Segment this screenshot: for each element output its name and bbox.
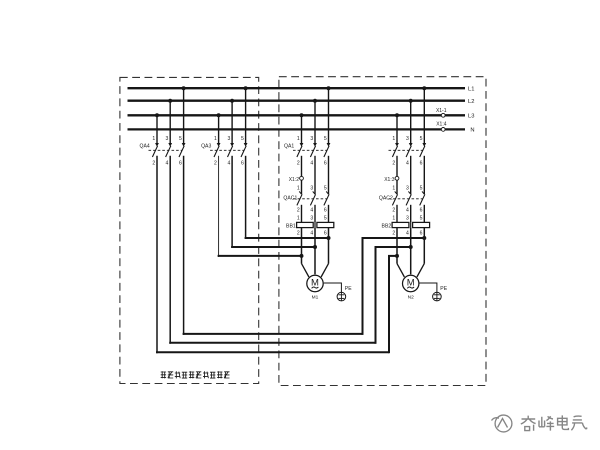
svg-text:QAC2: QAC2 bbox=[379, 195, 393, 201]
PE earth terminal (M1) bbox=[337, 286, 352, 301]
svg-text:N2: N2 bbox=[408, 294, 414, 300]
svg-text:6: 6 bbox=[324, 230, 327, 236]
svg-text:BB2: BB2 bbox=[382, 224, 392, 230]
svg-text:5: 5 bbox=[420, 216, 423, 222]
svg-text:BB1: BB1 bbox=[286, 224, 296, 230]
svg-text:QAC1: QAC1 bbox=[283, 195, 297, 201]
svg-text:2: 2 bbox=[297, 230, 300, 236]
wire: tap from bus L1 to QA1 pin 5, with junction bbox=[327, 86, 331, 143]
svg-text:6: 6 bbox=[420, 230, 423, 236]
svg-text:3: 3 bbox=[406, 136, 409, 142]
svg-text:PE: PE bbox=[345, 286, 352, 292]
wire: tap from bus L1 to QA3 pin 5, with junction bbox=[244, 86, 248, 143]
contactor QAC2 bbox=[379, 186, 425, 214]
svg-text:QA3: QA3 bbox=[201, 143, 211, 149]
QA3 pole contact (pin 1) bbox=[214, 143, 221, 157]
wire BB1 to motor M1 bbox=[302, 228, 329, 277]
svg-text:5: 5 bbox=[324, 136, 327, 142]
svg-text:5: 5 bbox=[420, 136, 423, 142]
motor N2 bbox=[403, 275, 419, 300]
motor M1 bbox=[307, 275, 323, 300]
bus N bbox=[128, 128, 466, 130]
wire QA4 pole2 -> riser -> motor branch 2 pole1 bbox=[156, 156, 397, 353]
QAC1 mechanical linkage (dashed) bbox=[293, 198, 327, 200]
svg-text:2: 2 bbox=[297, 160, 300, 166]
BB1 heater box right bbox=[317, 222, 334, 227]
QA3 pole contact (pin 5) bbox=[241, 143, 248, 157]
PE earth terminal (N2) bbox=[433, 286, 448, 301]
svg-text:QA1: QA1 bbox=[284, 143, 294, 149]
circuit breaker QA3 bbox=[201, 86, 248, 166]
svg-text:3: 3 bbox=[166, 136, 169, 142]
QA4 pole contact (pin 5) bbox=[179, 143, 186, 157]
QAC2 pole contact (pin 5) bbox=[420, 191, 425, 205]
svg-text:2: 2 bbox=[392, 160, 395, 166]
QA1 pole contact (pin 3) bbox=[310, 143, 317, 157]
svg-text:X1:2: X1:2 bbox=[289, 177, 300, 183]
svg-text:1: 1 bbox=[152, 136, 155, 142]
svg-text:6: 6 bbox=[420, 160, 423, 166]
wire: tap from bus L2 to QA2 (unlabeled) pin 3, with junction bbox=[409, 99, 413, 144]
wire QA2 drop pole3 bbox=[410, 156, 412, 194]
QA1 pin numbers 1 3 5 bbox=[297, 136, 327, 142]
svg-text:3: 3 bbox=[227, 136, 230, 142]
QA1 pin numbers 2 4 6 bbox=[297, 160, 327, 166]
QAC2 pole contact (pin 1) bbox=[392, 191, 397, 205]
wire: tap from bus L1 to QA4 pin 5, with junction bbox=[182, 86, 186, 143]
enclosure: right dashed cabinet box bbox=[279, 77, 486, 386]
svg-text:5: 5 bbox=[241, 136, 244, 142]
QA3 pin numbers 1 3 5 bbox=[214, 136, 244, 142]
wire QA4 pole6 -> riser -> motor branch 2 pole5 bbox=[183, 156, 425, 335]
svg-text:4: 4 bbox=[227, 160, 230, 166]
svg-text:2: 2 bbox=[392, 230, 395, 236]
wire QA2 drop pole1 with terminal X1:3 bbox=[396, 156, 398, 177]
QA2 (unlabeled) pin numbers 2 4 6 bbox=[392, 160, 422, 166]
wire QA1 drop pole1 with terminal X1:2 bbox=[301, 156, 303, 177]
QAC1 pole contact (pin 3) bbox=[310, 191, 315, 205]
svg-text:5: 5 bbox=[324, 216, 327, 222]
wire QA4 pole4 -> riser -> motor branch 2 pole3 bbox=[169, 156, 411, 344]
wire: tap from bus L3 to QA4 pin 1, with junction bbox=[155, 113, 159, 143]
thermal overload relay BB1 bbox=[286, 222, 334, 236]
svg-text:1: 1 bbox=[214, 136, 217, 142]
wire QA3 pole2 -> motor branch 1 pole1 bbox=[218, 156, 302, 257]
QAC2 pin numbers 2 4 6 bbox=[392, 207, 422, 213]
BB2 heater box right bbox=[413, 222, 430, 227]
QA2 (unlabeled) pole contact (pin 1) bbox=[392, 143, 399, 157]
QA1 pole contact (pin 1) bbox=[297, 143, 304, 157]
circuit breaker QA4 bbox=[139, 86, 185, 166]
svg-text:M1: M1 bbox=[312, 294, 319, 300]
circuit breaker QA2 (unlabeled) bbox=[389, 86, 427, 166]
QA4 pole contact (pin 3) bbox=[166, 143, 173, 157]
svg-text:N: N bbox=[470, 128, 474, 134]
wire: middle pole through BB1 bbox=[314, 222, 316, 227]
QA4 pin numbers 2 4 6 bbox=[152, 160, 182, 166]
svg-text:4: 4 bbox=[310, 207, 313, 213]
QAC2 pole contact (pin 3) bbox=[406, 191, 411, 205]
QAC2 pin numbers 1 3 5 bbox=[392, 186, 422, 192]
thermal overload relay BB2 bbox=[382, 222, 430, 236]
wire: tap from bus L2 to QA4 pin 3, with junction bbox=[168, 99, 172, 144]
svg-text:2: 2 bbox=[297, 207, 300, 213]
QAC2 mechanical linkage (dashed) bbox=[389, 198, 423, 200]
svg-text:4: 4 bbox=[406, 230, 409, 236]
watermark: text 奇峰电气 bbox=[521, 415, 587, 430]
bus L2 bbox=[128, 100, 466, 102]
wire QA3 pole6 -> motor branch 1 pole5 bbox=[245, 156, 329, 239]
svg-text:5: 5 bbox=[420, 186, 423, 192]
wire: tap from bus L1 to QA2 (unlabeled) pin 5, with junction bbox=[422, 86, 426, 143]
svg-text:1: 1 bbox=[297, 136, 300, 142]
circuit breaker QA1 bbox=[284, 86, 331, 166]
svg-text:L2: L2 bbox=[468, 99, 474, 105]
QA3 mechanical linkage (dashed) bbox=[210, 149, 244, 151]
svg-text:4: 4 bbox=[406, 160, 409, 166]
wire: tap from bus L2 to QA3 pin 3, with junction bbox=[230, 99, 234, 144]
wire motor N2 to PE bbox=[419, 283, 437, 292]
QA1 pole contact (pin 5) bbox=[324, 143, 331, 157]
bus L3 bbox=[128, 114, 466, 116]
svg-text:1: 1 bbox=[297, 216, 300, 222]
wire QAC1 to BB1 poles bbox=[297, 205, 329, 223]
contactor QAC1 bbox=[283, 186, 329, 214]
wire: tap from bus L2 to QA1 pin 3, with junction bbox=[313, 99, 317, 144]
svg-text:2: 2 bbox=[214, 160, 217, 166]
wire QA1 drop pole5 bbox=[328, 156, 330, 194]
svg-text:3: 3 bbox=[406, 216, 409, 222]
enclosure: left dashed cabinet box bbox=[120, 77, 259, 383]
svg-text:PE: PE bbox=[440, 286, 447, 292]
svg-text:6: 6 bbox=[241, 160, 244, 166]
svg-text:4: 4 bbox=[310, 230, 313, 236]
bus L1 bbox=[128, 87, 466, 89]
svg-text:L1: L1 bbox=[468, 87, 474, 93]
QAC1 pole contact (pin 5) bbox=[324, 191, 329, 205]
svg-text:6: 6 bbox=[179, 160, 182, 166]
svg-text:3: 3 bbox=[310, 216, 313, 222]
QA3 pole contact (pin 3) bbox=[228, 143, 235, 157]
QA2 (unlabeled) mechanical linkage (dashed) bbox=[389, 149, 423, 151]
svg-text:M: M bbox=[407, 278, 415, 289]
svg-text:1: 1 bbox=[392, 186, 395, 192]
svg-text:3: 3 bbox=[310, 186, 313, 192]
svg-text:3: 3 bbox=[310, 136, 313, 142]
label: 机械应急启泵电气装置 (cabinet caption) bbox=[161, 371, 230, 378]
svg-text:QA4: QA4 bbox=[139, 143, 149, 149]
svg-text:X1-1: X1-1 bbox=[436, 108, 447, 114]
QAC1 pin numbers 2 4 6 bbox=[297, 207, 327, 213]
svg-text:6: 6 bbox=[324, 160, 327, 166]
wire: tap from bus L3 to QA2 (unlabeled) pin 1, with junction bbox=[395, 113, 399, 143]
svg-text:X1:3: X1:3 bbox=[384, 177, 395, 183]
wire QA3 pole4 -> motor branch 1 pole3 bbox=[231, 156, 315, 248]
QA4 pin numbers 1 3 5 bbox=[152, 136, 182, 142]
QA1 mechanical linkage (dashed) bbox=[293, 149, 327, 151]
wire QA1 drop pole3 bbox=[314, 156, 316, 194]
svg-text:M: M bbox=[311, 278, 319, 289]
svg-text:6: 6 bbox=[420, 207, 423, 213]
QA2 (unlabeled) pole contact (pin 3) bbox=[406, 143, 413, 157]
QA3 pin numbers 2 4 6 bbox=[214, 160, 244, 166]
QAC1 pole contact (pin 1) bbox=[297, 191, 302, 205]
svg-text:L3: L3 bbox=[468, 114, 474, 120]
QA2 (unlabeled) pole contact (pin 5) bbox=[420, 143, 427, 157]
QA4 mechanical linkage (dashed) bbox=[149, 149, 183, 151]
svg-text:5: 5 bbox=[324, 186, 327, 192]
wire BB2 to motor N2 bbox=[397, 228, 424, 277]
watermark: logo icon bbox=[492, 415, 512, 432]
wire: middle pole through BB2 bbox=[410, 222, 412, 227]
BB1 heater box left bbox=[297, 222, 314, 227]
svg-text:1: 1 bbox=[297, 186, 300, 192]
BB1 pin numbers 2 4 6 bbox=[297, 230, 327, 236]
junction dots on motor branch M1 bbox=[300, 236, 331, 258]
terminal X1:3 bbox=[395, 176, 399, 180]
wire: tap from bus L3 to QA1 pin 1, with junction bbox=[300, 113, 304, 143]
svg-text:4: 4 bbox=[406, 207, 409, 213]
wire QA2 drop pole5 bbox=[423, 156, 425, 194]
svg-text:5: 5 bbox=[179, 136, 182, 142]
svg-text:3: 3 bbox=[406, 186, 409, 192]
svg-text:1: 1 bbox=[392, 216, 395, 222]
wire: tap from bus L3 to QA3 pin 1, with junction bbox=[217, 113, 221, 143]
svg-text:4: 4 bbox=[310, 160, 313, 166]
wire QAC2 to BB2 poles bbox=[392, 205, 424, 223]
svg-text:2: 2 bbox=[152, 160, 155, 166]
BB2 pin numbers 2 4 6 bbox=[392, 230, 422, 236]
BB2 heater box left bbox=[392, 222, 409, 227]
QAC1 pin numbers 1 3 5 bbox=[297, 186, 327, 192]
svg-text:2: 2 bbox=[392, 207, 395, 213]
svg-text:1: 1 bbox=[392, 136, 395, 142]
svg-text:X1:4: X1:4 bbox=[436, 122, 447, 128]
QA2 (unlabeled) pin numbers 1 3 5 bbox=[392, 136, 422, 142]
QA4 pole contact (pin 1) bbox=[152, 143, 159, 157]
terminal X1:2 bbox=[300, 176, 304, 180]
wire motor M1 to PE bbox=[324, 283, 342, 292]
svg-text:6: 6 bbox=[324, 207, 327, 213]
svg-text:4: 4 bbox=[166, 160, 169, 166]
junction dots on motor branch N2 bbox=[395, 236, 426, 258]
